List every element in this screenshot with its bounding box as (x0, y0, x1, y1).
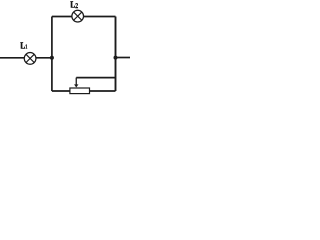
wire right vertical branch (115, 17, 117, 92)
wiper arrow (74, 78, 78, 88)
wire wiper to right branch (76, 77, 115, 79)
wire left terminal to node A (0, 57, 52, 59)
lamp L2 (72, 10, 84, 22)
node B junction dot (114, 56, 118, 60)
wire top branch (52, 16, 116, 18)
wire left vertical branch (51, 17, 53, 92)
wire node B to right terminal (116, 57, 131, 59)
lamp L1 (24, 53, 36, 65)
label L2 (70, 1, 78, 8)
label L1 (20, 42, 27, 49)
resistor R (rheostat body) (70, 88, 90, 94)
node A junction dot (50, 56, 54, 60)
wire bottom branch (52, 90, 116, 92)
